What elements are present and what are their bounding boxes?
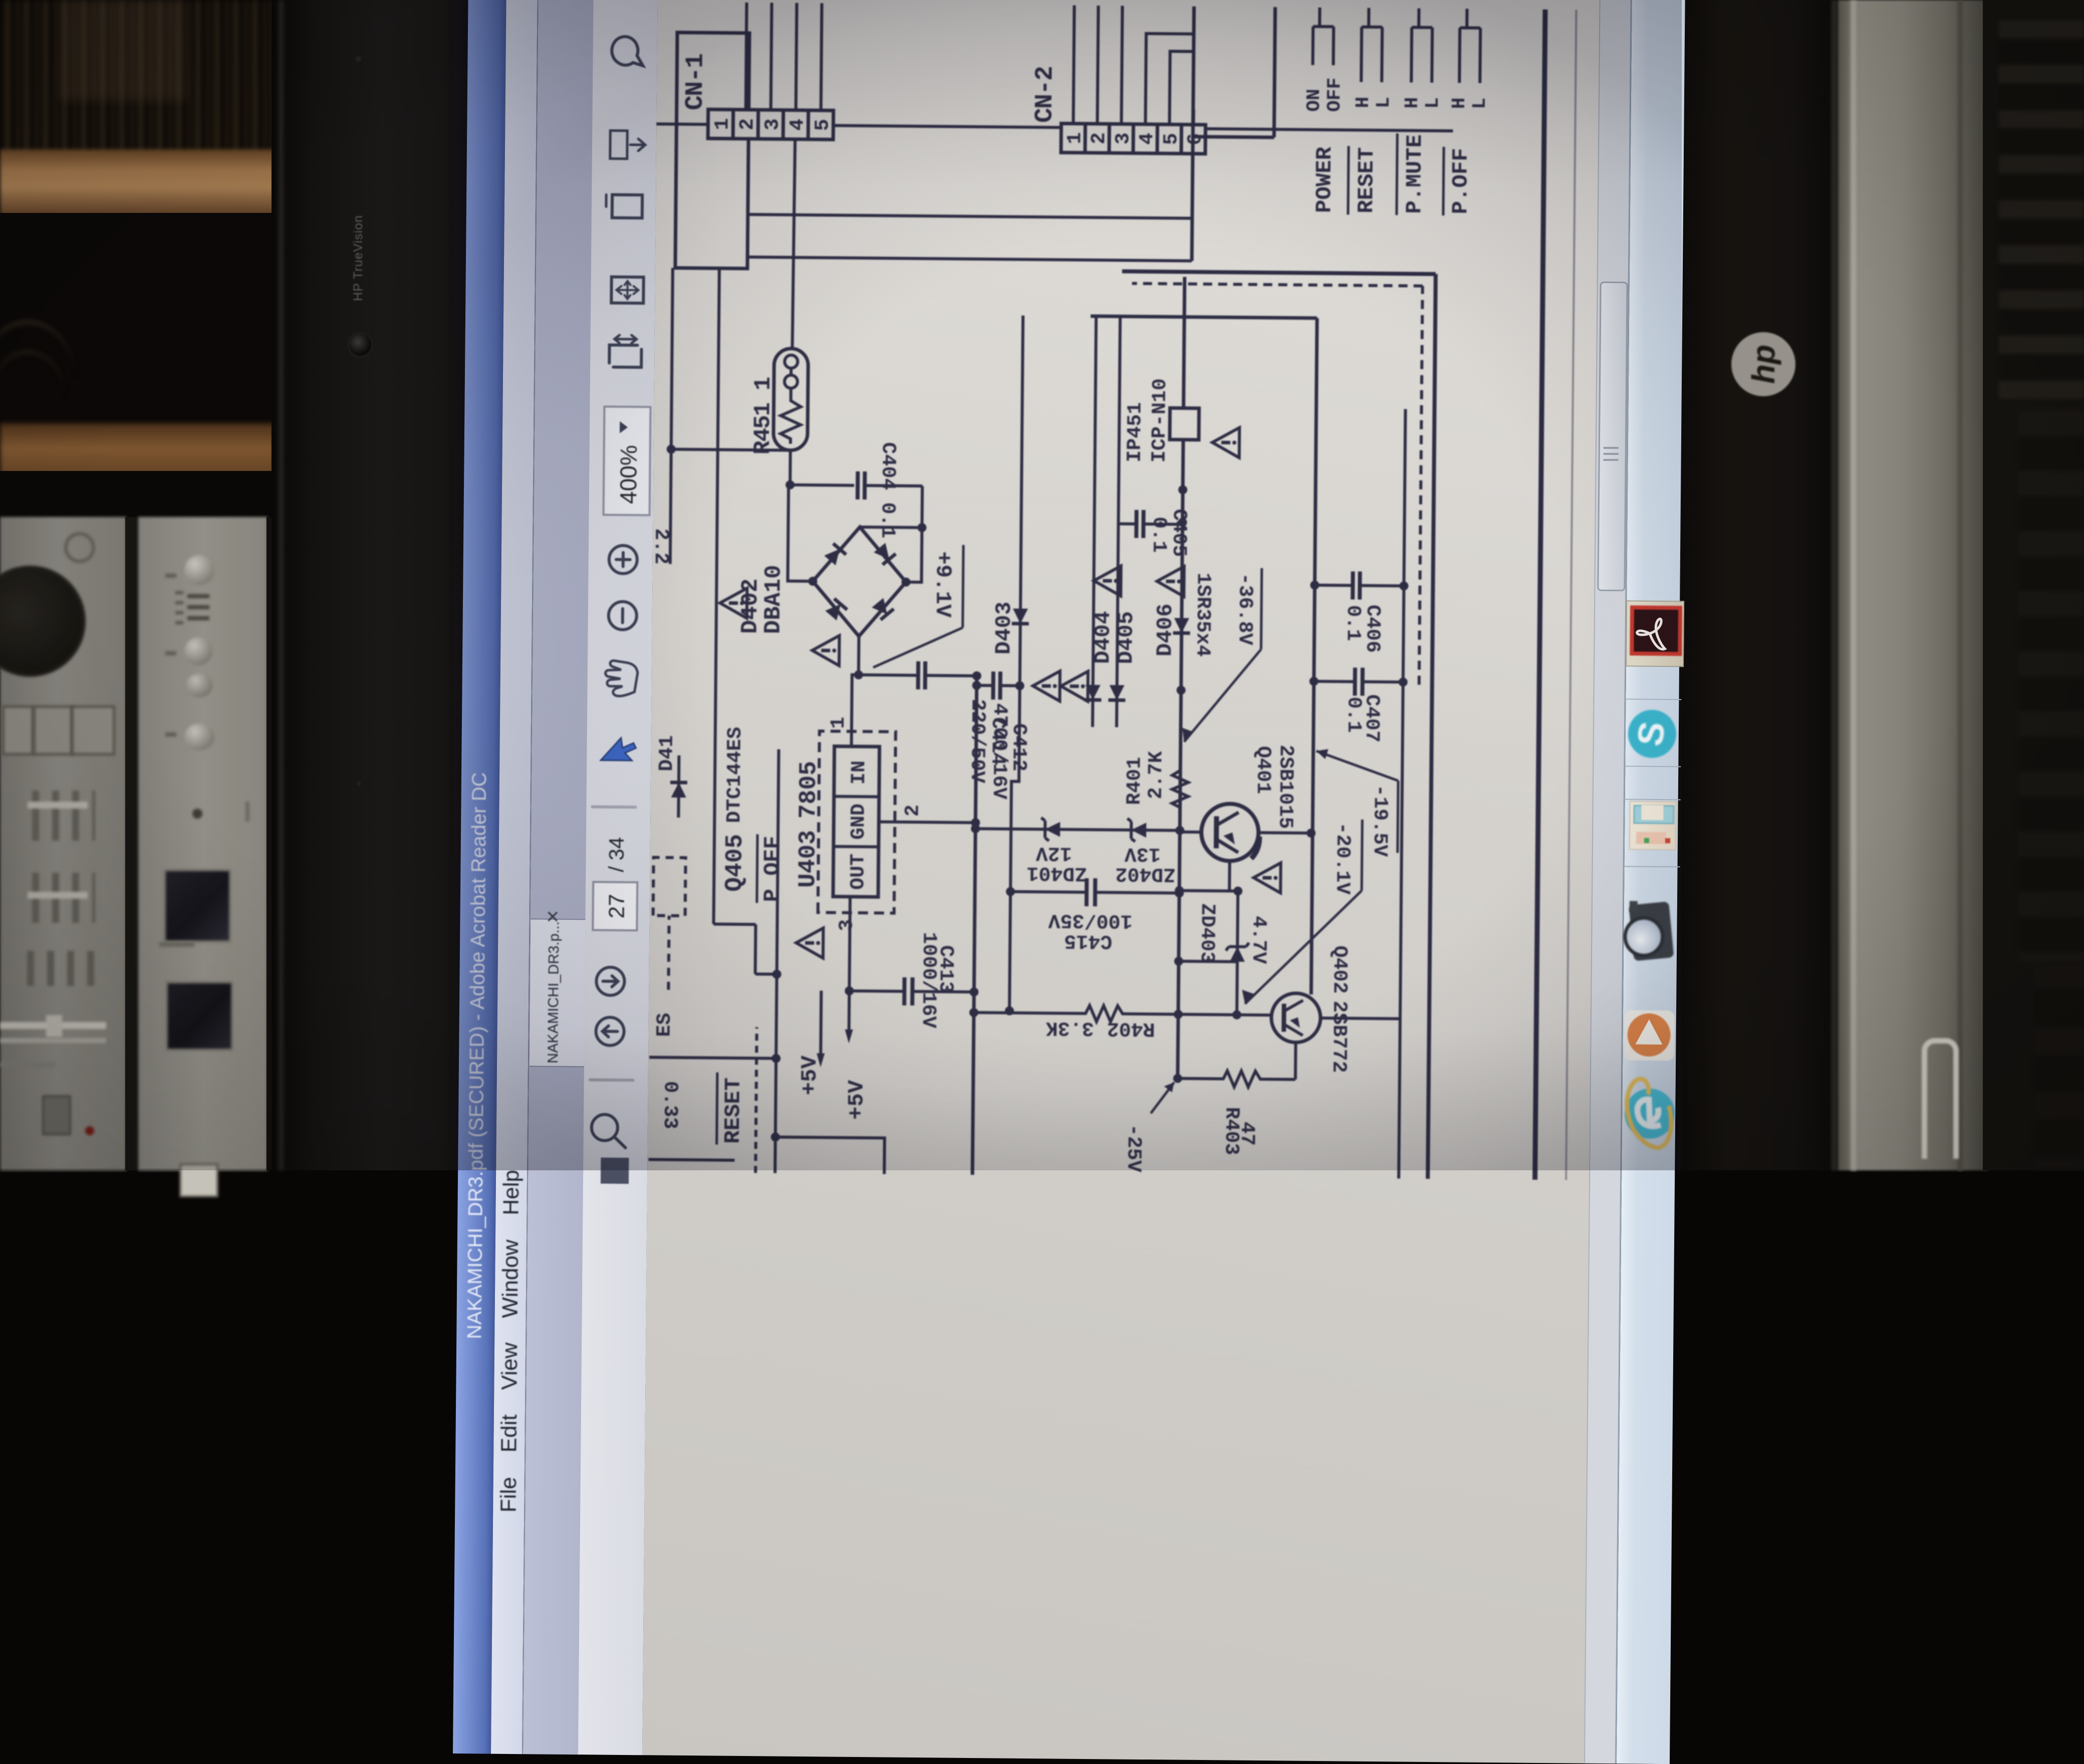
- wire R451 to rail 411: [671, 449, 791, 450]
- wire rail: [1093, 316, 1096, 727]
- warning triangle: [1032, 671, 1060, 701]
- zener diode ZD403: [1195, 891, 1270, 1020]
- GND bus wire: [972, 676, 977, 1175]
- svg-text:4: 4: [787, 119, 809, 131]
- svg-text:R402: R402: [1107, 1017, 1155, 1040]
- svg-text:220/50V: 220/50V: [965, 699, 988, 783]
- shield box dashed: [1129, 284, 1423, 685]
- transistor Q405: [652, 726, 750, 990]
- shield box inner: [1085, 316, 1317, 994]
- svg-text:12V: 12V: [1036, 841, 1072, 864]
- junction: [771, 1132, 780, 1141]
- net P OFF: [757, 834, 786, 903]
- orange media icon: [1624, 1010, 1675, 1061]
- svg-text:2.2: 2.2: [649, 528, 672, 564]
- capacitor C415: [1005, 878, 1184, 953]
- board rail wire: [656, 124, 1453, 131]
- +5V supply arrow: [797, 990, 825, 1095]
- wire GND: [879, 822, 975, 823]
- capacitor C412: [853, 636, 1031, 800]
- schematic frame line: [1535, 10, 1545, 1180]
- wire: [1228, 861, 1231, 891]
- capacitor C407: [1309, 667, 1408, 743]
- skype: [1628, 709, 1676, 758]
- comment bubble: [612, 37, 643, 66]
- internet explorer: [1619, 1073, 1682, 1154]
- wood shelf board: [0, 149, 275, 218]
- junction: [1175, 886, 1184, 895]
- svg-text:ZD402: ZD402: [1115, 862, 1175, 885]
- warning triangle: [812, 635, 840, 665]
- svg-text:47: 47: [1235, 1122, 1258, 1146]
- junction: [1178, 518, 1187, 527]
- wire: [789, 450, 792, 485]
- svg-text:ZD403: ZD403: [1195, 903, 1218, 963]
- svg-text:2: 2: [1088, 132, 1111, 144]
- capacitor C405: [1118, 509, 1190, 557]
- net -20.1V: [1242, 819, 1362, 1005]
- resistor R451: [750, 348, 809, 455]
- net P.OFF: [1443, 9, 1492, 216]
- hand tool: [605, 661, 638, 696]
- bottom controls left unit: [42, 1095, 71, 1135]
- wire mains pair: [747, 257, 1192, 261]
- net -25V: [1122, 1082, 1174, 1173]
- junction: [1175, 826, 1184, 835]
- svg-text:1: 1: [1064, 132, 1087, 144]
- svg-text:RESET: RESET: [721, 1078, 746, 1144]
- svg-text:-19.5V: -19.5V: [1368, 785, 1391, 857]
- HP TrueVision label (rotated): [301, 200, 416, 316]
- gap between units: [125, 517, 139, 1170]
- page edge line: [1566, 10, 1576, 1180]
- +5V supply arrow: [844, 991, 870, 1120]
- bridge rectifier D402: [737, 526, 911, 637]
- warning triangle: [796, 928, 824, 958]
- svg-text:IP451: IP451: [1124, 402, 1147, 462]
- wire: [1294, 1043, 1297, 1080]
- svg-text:100/35V: 100/35V: [1048, 908, 1132, 931]
- junction: [971, 818, 980, 827]
- net POWER: [1302, 8, 1347, 213]
- dark under shelf: [0, 213, 281, 429]
- diode D404: [1084, 611, 1116, 700]
- svg-text:P.MUTE: P.MUTE: [1402, 134, 1428, 214]
- svg-text:Q405: Q405: [721, 834, 749, 892]
- svg-text:CN-2: CN-2: [1030, 67, 1060, 123]
- junction: [1174, 957, 1183, 966]
- wire CN-2 pin 5: [1169, 51, 1193, 124]
- buttons row: [2, 705, 34, 755]
- diode D405: [1093, 566, 1139, 700]
- junction: [1307, 829, 1316, 838]
- tab bar: [522, 0, 599, 1754]
- connector CN-1: [681, 54, 835, 140]
- CN-2 pin wires: [1073, 6, 1074, 124]
- svg-text:C413: C413: [934, 945, 957, 993]
- svg-text:5: 5: [812, 119, 834, 131]
- svg-text:H: H: [1402, 97, 1423, 109]
- left bezel: [272, 0, 471, 1170]
- junction: [971, 824, 980, 833]
- rail wire: [1399, 409, 1405, 1178]
- svg-text:1: 1: [828, 716, 850, 728]
- wire bridge AC input: [906, 486, 922, 582]
- svg-text:6: 6: [1184, 133, 1207, 145]
- junction: [1176, 686, 1185, 695]
- wire OUT: [849, 897, 850, 991]
- svg-text:D402: D402: [737, 578, 764, 634]
- svg-text:L: L: [1469, 98, 1491, 109]
- menu bar: [491, 0, 542, 1754]
- wire staircase to CN-1 pin1: [713, 269, 783, 974]
- svg-text:Q401: Q401: [1251, 746, 1274, 794]
- svg-text:DBA10: DBA10: [760, 565, 787, 634]
- adobe reader button (active): [1626, 600, 1684, 667]
- wire rail: [1117, 317, 1120, 727]
- junction: [1178, 485, 1187, 494]
- partial icon at cut edge: [601, 1158, 629, 1184]
- relay box: [1192, 7, 1275, 262]
- svg-text:H: H: [1353, 97, 1374, 108]
- app window icon: [1624, 799, 1681, 867]
- net RESET: [716, 1027, 757, 1173]
- rotate/share icon: [612, 195, 642, 218]
- svg-text:H: H: [1449, 97, 1470, 109]
- svg-text:400%: 400%: [615, 445, 642, 504]
- svg-text:+5V: +5V: [797, 1055, 823, 1095]
- svg-text:0.1: 0.1: [1341, 605, 1364, 641]
- svg-text:C406: C406: [1361, 605, 1384, 653]
- svg-text:P.OFF: P.OFF: [1448, 148, 1474, 214]
- svg-text:-25V: -25V: [1122, 1124, 1145, 1172]
- send arrow icon: [610, 131, 627, 159]
- wire: [775, 1137, 885, 1174]
- svg-text:1SR35x4: 1SR35x4: [1191, 573, 1214, 657]
- wire: [1179, 891, 1238, 891]
- junction: [771, 1054, 780, 1063]
- capacitor C413: [845, 931, 979, 1029]
- diode D41x fragment: [655, 735, 687, 818]
- resistor R403: [1172, 1070, 1295, 1155]
- shield box outer: [1114, 272, 1436, 1179]
- svg-text:L: L: [1373, 97, 1395, 108]
- horizontal slider: [0, 1022, 106, 1029]
- zoom out: [609, 602, 637, 630]
- wire CN-2 pin 2: [1097, 6, 1098, 124]
- svg-text:C415: C415: [1064, 929, 1112, 952]
- wire: [648, 1159, 734, 1160]
- wire: [649, 1057, 776, 1058]
- wire IN: [852, 675, 859, 746]
- warning triangle: [1061, 671, 1088, 701]
- svg-text:-20.1V: -20.1V: [1331, 822, 1354, 894]
- wire CN-2 pin 4: [1145, 34, 1194, 125]
- find magnifier: [592, 1114, 618, 1140]
- wire: [1179, 961, 1237, 962]
- svg-text:ES: ES: [653, 1013, 676, 1037]
- right bezel: [1677, 0, 1843, 1170]
- wire zener branch: [975, 829, 1180, 831]
- webcam: [349, 334, 371, 356]
- zoom in: [609, 546, 637, 574]
- svg-text:R401: R401: [1124, 757, 1147, 805]
- svg-text:ZD401: ZD401: [1026, 861, 1087, 884]
- wire: [1321, 1018, 1400, 1019]
- svg-text:27: 27: [605, 894, 629, 918]
- title bar: [453, 0, 510, 1754]
- svg-text:2: 2: [902, 805, 924, 817]
- divider: [590, 1078, 633, 1082]
- wire rail 411: [670, 268, 673, 564]
- svg-text:CN-1: CN-1: [681, 54, 710, 111]
- svg-text:4: 4: [1136, 133, 1159, 145]
- junction: [972, 671, 981, 680]
- bridge wires: [788, 485, 814, 581]
- svg-text:ON: ON: [1304, 89, 1325, 112]
- svg-text:0.1: 0.1: [1147, 517, 1170, 553]
- audio equipment: right unit (cassette deck): [138, 517, 268, 1170]
- scrolling page icon: [609, 345, 641, 368]
- svg-text:POWER: POWER: [1312, 146, 1338, 213]
- svg-text:+9.1V: +9.1V: [930, 551, 955, 618]
- records on shelf (top-left): [0, 0, 282, 168]
- fit page icon: [611, 277, 643, 304]
- slider banks: [20, 791, 95, 841]
- junction: [786, 480, 795, 489]
- svg-text:D403: D403: [991, 602, 1017, 655]
- svg-text:Q402: Q402: [1328, 945, 1351, 993]
- diode D403: [991, 602, 1029, 655]
- wire CN-1 pin 4: [796, 3, 797, 110]
- svg-text:4.7V: 4.7V: [1247, 916, 1270, 964]
- wire: [775, 749, 778, 1173]
- junction: [917, 523, 926, 532]
- svg-text:3.3K: 3.3K: [1046, 1016, 1094, 1039]
- svg-text:IN: IN: [848, 761, 871, 785]
- svg-text:RESET: RESET: [1354, 147, 1380, 213]
- svg-text:2SB772: 2SB772: [1327, 1000, 1350, 1073]
- zoom percent box: [604, 407, 651, 516]
- pdf h-scrollbar: [1584, 0, 1636, 1763]
- wire pin4 to R451: [792, 139, 795, 349]
- wire CN-2 pin 6: [1192, 109, 1195, 125]
- svg-text:3: 3: [836, 919, 858, 931]
- connector CN-2: [1030, 67, 1207, 154]
- zener diode ZD401: [1026, 818, 1087, 884]
- main -36.8V rail wire: [1178, 277, 1185, 1079]
- svg-text:OUT: OUT: [847, 854, 870, 890]
- svg-text:2SB1015: 2SB1015: [1273, 744, 1296, 829]
- transistor Q402: [1236, 945, 1351, 1073]
- svg-text:P OFF: P OFF: [760, 836, 786, 902]
- wire CN-1 pin 5: [821, 3, 822, 110]
- svg-text:DTC144ES: DTC144ES: [723, 727, 747, 823]
- wire CN-2 pin 3: [1121, 6, 1122, 124]
- junction: [667, 445, 676, 454]
- page number box: [593, 882, 637, 930]
- capacitor C404: [790, 441, 923, 539]
- node +9.1V: [873, 544, 963, 668]
- junction: [772, 970, 781, 979]
- camera icon: [1629, 901, 1674, 961]
- diode D406: [1153, 566, 1191, 657]
- warning triangle: [1253, 863, 1281, 893]
- transistor Q401: [1180, 744, 1297, 862]
- svg-text:+5V: +5V: [844, 1080, 870, 1120]
- active tab: [530, 918, 586, 1067]
- svg-text:L: L: [1422, 97, 1444, 109]
- svg-text:OFF: OFF: [1324, 78, 1346, 112]
- svg-text:D41: D41: [656, 735, 679, 771]
- svg-text:-36.8V: -36.8V: [1233, 573, 1256, 645]
- svg-text:D405: D405: [1114, 611, 1139, 664]
- big knob: [0, 569, 83, 674]
- svg-text:13V: 13V: [1125, 842, 1161, 865]
- svg-text:5: 5: [1160, 133, 1183, 145]
- svg-text:0.33: 0.33: [658, 1081, 681, 1129]
- page up: [596, 1017, 624, 1045]
- capacitor C406: [1310, 571, 1408, 653]
- net RESET: [1348, 8, 1396, 215]
- svg-text:2: 2: [736, 118, 759, 130]
- IC U403 7805: [794, 716, 925, 932]
- junction: [1005, 1006, 1014, 1016]
- select arrow: [601, 738, 636, 761]
- cassette windows: [163, 869, 231, 943]
- wire bridge DC output: [860, 527, 922, 528]
- resistor R402: [969, 1004, 1270, 1041]
- svg-text:3: 3: [761, 118, 784, 130]
- zener diode ZD402: [1115, 818, 1176, 885]
- svg-text:C404 0.1: C404 0.1: [876, 442, 899, 538]
- junction: [1233, 887, 1242, 896]
- capacitor C414: [965, 671, 1024, 784]
- svg-text:C405: C405: [1167, 509, 1190, 557]
- taskbar: [1615, 0, 1689, 1764]
- page down: [596, 967, 624, 995]
- wire mains pair: [748, 214, 1192, 218]
- svg-text:3: 3: [1112, 132, 1135, 144]
- svg-text:1: 1: [711, 118, 734, 130]
- warning triangle: [720, 588, 747, 618]
- content area: [642, 0, 1605, 1763]
- svg-text:2.7K: 2.7K: [1145, 751, 1168, 799]
- svg-text:D406: D406: [1153, 603, 1178, 656]
- metal hook: [1922, 1038, 1959, 1159]
- svg-text:C407: C407: [1360, 694, 1383, 742]
- wire CN-1 pin 3: [771, 3, 772, 110]
- svg-text:D404: D404: [1091, 611, 1116, 664]
- wire rail: [1009, 316, 1023, 1011]
- divider: [593, 805, 636, 809]
- svg-text:GND: GND: [848, 804, 871, 840]
- net P.MUTE: [1397, 8, 1445, 215]
- protector IP451: [1124, 378, 1240, 463]
- audio equipment: left unit: [0, 517, 126, 1170]
- svg-text:C414: C414: [986, 717, 1009, 765]
- lower wood strip: [0, 423, 275, 479]
- far right dark equipment: [1983, 0, 2084, 1170]
- svg-text:/ 34: / 34: [604, 837, 628, 872]
- toolbar: [578, 0, 663, 1755]
- bottom button right unit: [179, 1163, 218, 1197]
- mains box: [675, 33, 749, 269]
- resistor R401: [1123, 751, 1188, 812]
- label -36.8V: [1182, 568, 1262, 742]
- CN-1 pin wires: [746, 3, 747, 110]
- wire: [1258, 831, 1311, 835]
- hp logo: [1731, 332, 1795, 396]
- net -19.5V: [1316, 749, 1399, 857]
